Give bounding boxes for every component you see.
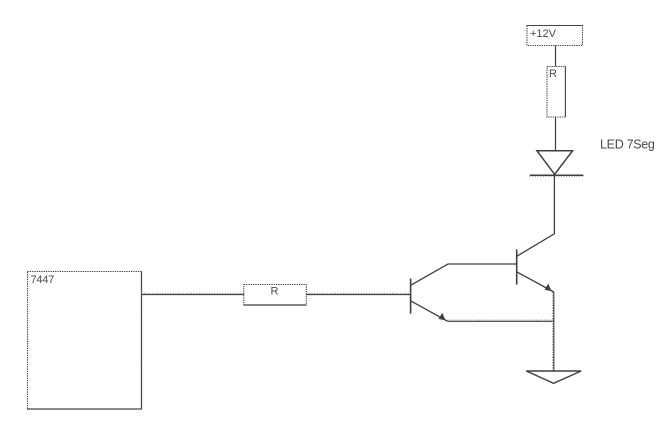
svg-text:R: R [271,286,279,298]
svg-text:R: R [549,68,557,80]
IC U1 7447 box [27,272,142,410]
wire: LED cathode down to Q2 collector [517,175,555,256]
svg-text:7447: 7447 [31,274,55,286]
svg-text:+12V: +12V [530,28,557,40]
wire: R2 to Q1 base [306,293,410,294]
svg-text:LED 7Seg: LED 7Seg [600,138,655,152]
wire: Q1 emitter to ground rail [448,320,554,321]
transistor Q2 (NPN, right) [517,250,554,293]
resistor R1 (vertical) [547,67,566,118]
power supply +12V box [527,26,584,46]
wire: Q1 collector to Q2 base [411,264,517,285]
transistor Q1 (NPN, left) [411,279,448,322]
wire: emitter rail down to ground [553,292,554,371]
wire: 7447 output to R2 [142,293,245,294]
wire: R1 to LED anode [555,117,557,151]
resistor R2 (horizontal) [244,285,306,306]
wire: +12V to R1 [555,46,557,68]
ground symbol [526,371,581,383]
LED D1 (7-seg segment diode) [530,151,584,177]
